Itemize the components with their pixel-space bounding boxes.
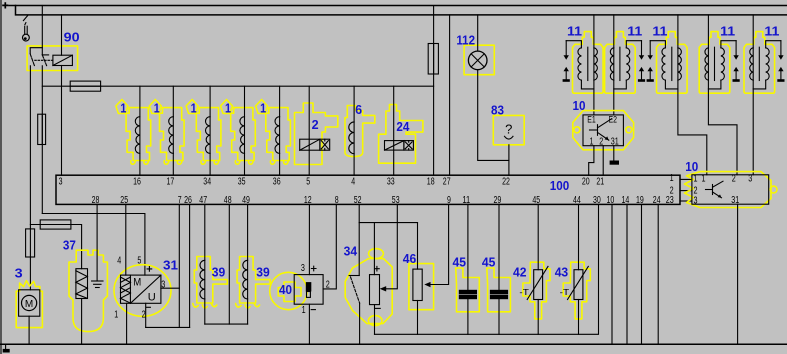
wire: supply bus through injector 1 to ECU: [139, 86, 141, 175]
svg-text:20: 20: [582, 177, 590, 188]
wire: spark plug bracket unit 2: [626, 41, 641, 48]
svg-text:11: 11: [627, 24, 642, 38]
svg-text:7: 7: [178, 195, 182, 206]
svg-text:30: 30: [593, 195, 601, 206]
sensor 39 inductive coil: [243, 260, 248, 299]
ground symbol bottom left: [5, 344, 7, 349]
relay 90 contact arm 1: [30, 54, 34, 66]
svg-text:11: 11: [652, 24, 667, 38]
svg-text:1: 1: [191, 102, 197, 116]
injector 1 (unit 2) label flag: [149, 100, 161, 114]
svg-text:1: 1: [702, 173, 706, 184]
svg-text:47: 47: [199, 195, 207, 206]
output stage 10 pin numbers 1 2 31: [590, 136, 620, 147]
fuse (horizontal) fuel pump circuit: [40, 220, 71, 229]
wire: hall sender minus to ground bus: [308, 304, 310, 344]
svg-text:1: 1: [302, 305, 306, 316]
idle stabilizer valve 6 highlight outline: [345, 106, 375, 157]
ignition coil 11 (unit 1) highlight outline: [573, 32, 604, 94]
wire: heater to ground bus: [81, 299, 83, 345]
ignition coil unit 1 primary winding: [578, 48, 581, 80]
wire: ECU pin 10 to ground bus: [611, 204, 613, 344]
svg-text:14: 14: [622, 195, 630, 206]
ignition coil unit 2 core: [619, 47, 621, 80]
svg-text:1: 1: [225, 102, 231, 116]
wire: ECU pin 28 to sensor cell: [96, 204, 98, 281]
wire: sensors 39 common link: [205, 323, 248, 325]
throttle pot 34 resistor: [370, 275, 380, 305]
output stage 10 (right) highlight outline: [685, 172, 772, 208]
wire: rail 15 to relay coil: [61, 15, 63, 55]
wire: supply bus through injector 2 to ECU: [172, 86, 174, 175]
wire: switch to ground bus: [359, 303, 361, 344]
wire: knock sensor to sensor ground: [498, 299, 500, 334]
svg-text:17: 17: [167, 177, 175, 188]
control unit 100 top pin numbers: [59, 177, 605, 188]
svg-text:36: 36: [273, 177, 281, 188]
wire: sensor ground collector line to ECU pin 30: [375, 204, 599, 334]
wire: fuse to fuel pump motor: [29, 257, 31, 290]
fuel pump 3 motor circle: [22, 295, 37, 310]
svg-text:19: 19: [636, 195, 644, 206]
hall sender 40 highlight circle: [270, 272, 307, 309]
wire: fuel pump to ground bus: [28, 316, 30, 344]
throttle switch 34 contact tick: [349, 275, 359, 277]
wire: ECU to knock sensor: [467, 204, 469, 289]
injector 3 solenoid coil: [206, 117, 211, 154]
ignition coil unit 3 bottom link: [665, 80, 678, 89]
ignition coil unit 3 primary winding: [662, 48, 665, 80]
wire: output stage (right) pin 31 to ground bus: [737, 204, 739, 344]
ignition coil unit 1 bottom link: [581, 80, 594, 89]
ear circle right: [770, 186, 777, 193]
ignition coil 11 (unit 3) highlight outline: [657, 32, 688, 94]
wire: ECU through sensor 39: [204, 204, 206, 324]
fuel pump 3 motor box: [19, 290, 40, 316]
solenoid valve 24 coil box: [385, 141, 404, 151]
svg-text:26: 26: [184, 195, 192, 206]
svg-text:6: 6: [355, 103, 362, 117]
svg-text:1: 1: [694, 173, 698, 184]
wire: sensor ground link: [146, 326, 190, 328]
ignition coil 11 (unit 4) highlight outline: [699, 32, 730, 94]
ignition coil unit 1 secondary winding: [594, 48, 597, 80]
svg-text:M: M: [25, 299, 33, 310]
wire: ECU pin 7 down: [178, 204, 180, 327]
svg-text:3: 3: [694, 196, 698, 207]
svg-text:39: 39: [212, 265, 226, 279]
injector 1 (unit 1) highlight outline: [126, 108, 151, 161]
svg-text:45: 45: [532, 195, 540, 206]
wire: spark plug bracket unit 5: [766, 41, 781, 48]
svg-text:31: 31: [731, 195, 739, 206]
svg-text:11: 11: [462, 195, 470, 206]
knock sensor 45 element bars: [490, 290, 508, 294]
knock sensor 45 element bars: [459, 290, 477, 294]
oxygen sensor 37 sensor cell bars: [92, 280, 103, 282]
output stage 10 (right) transistor symbol: [706, 181, 724, 198]
wire: spark plug bracket unit 1: [566, 41, 581, 48]
injector 2 solenoid coil: [169, 117, 174, 154]
ignition coil unit 5 core: [758, 47, 760, 80]
spark plug gap unit 1: [565, 41, 567, 56]
wire: rail 15 through lamp 112 to pin 22 node: [478, 15, 509, 161]
ignition coil unit 5 secondary winding: [750, 48, 753, 80]
svg-text:2: 2: [732, 173, 736, 184]
throttle switch 34 switch arm (dashed): [351, 277, 360, 303]
ground symbol output stage: [610, 161, 619, 165]
svg-text:35: 35: [238, 177, 246, 188]
wire: injector supply bus: [42, 85, 433, 87]
wire: sensor 42 to sensor ground: [537, 300, 539, 335]
wire: ECU through sensor 43: [578, 204, 580, 269]
wire: rail 15 through coil 3 to output stage: [678, 15, 707, 175]
svg-text:3: 3: [301, 263, 305, 274]
ignition coil unit 3 secondary winding: [678, 48, 681, 80]
injector 1 (unit 2) highlight outline: [160, 108, 185, 161]
svg-text:E1: E1: [587, 115, 596, 125]
svg-text:37: 37: [63, 238, 76, 252]
wire: ECU pin 25 to AMM pin 4: [125, 204, 127, 275]
svg-text:40: 40: [279, 283, 292, 297]
sensor 39 inductive coil: [200, 260, 205, 299]
wire: pot 46 to sensor ground: [417, 301, 419, 335]
svg-text:24: 24: [653, 195, 661, 206]
wire: spark plug bracket unit 3: [650, 41, 665, 48]
spark plug gap unit 4: [735, 41, 737, 56]
output stage 10 highlight outline: [573, 111, 634, 150]
air mass meter 31 body box: [121, 275, 161, 303]
wire: ECU through sensor 39: [247, 204, 249, 324]
ignition coil unit 4 secondary winding: [705, 48, 708, 80]
svg-text:45: 45: [453, 256, 467, 270]
output stage 10 (right) pin numbers: [694, 173, 753, 206]
svg-text:1: 1: [260, 102, 266, 116]
wire: rail 15 through coil 1 to output stage: [593, 15, 595, 115]
ground bus: [0, 343, 787, 345]
wire: relay contact 2 output down through fuse to feed line: [41, 66, 43, 214]
ignition key symbol: [23, 16, 30, 41]
injector 4 solenoid coil: [240, 117, 245, 154]
knock sensor 45 highlight outline: [456, 268, 480, 312]
solenoid valve 24 valve seat box: [404, 141, 414, 151]
temperature sensor 43 highlight outline: [563, 262, 590, 319]
svg-text:1: 1: [670, 173, 674, 184]
scan border left edge: [0, 0, 2, 354]
wire: output stage pin 31 to ground: [613, 146, 615, 161]
wire: output stage pin 2 to ECU pin 21: [602, 146, 604, 176]
svg-text:31: 31: [163, 259, 178, 273]
ignition coil unit 2 secondary winding: [610, 48, 613, 80]
wire: supply bus through valve 24 to ECU pin 33: [393, 86, 395, 175]
svg-text:112: 112: [456, 33, 475, 47]
output stage 10 (right) box: [692, 175, 769, 204]
svg-text:90: 90: [64, 31, 80, 45]
solenoid valve 24 highlight outline: [379, 105, 423, 164]
wire: knock sensor to sensor ground: [467, 299, 469, 334]
svg-text:11: 11: [720, 24, 735, 38]
svg-text:53: 53: [392, 195, 400, 206]
spark plug gap unit 3: [649, 41, 651, 56]
svg-text:43: 43: [555, 266, 569, 280]
oxygen sensor 37 highlight outline: [69, 250, 107, 331]
wire: plus rail 15 (top line 2): [16, 6, 787, 15]
wire: AMM pin 1 to ground bus: [126, 303, 128, 344]
ignition coil unit 5 bottom link: [753, 80, 766, 89]
injector 1 (unit 4) label flag: [221, 100, 233, 114]
wire: ECU through sensor 42: [537, 204, 539, 269]
ignition coil unit 4 bottom link: [708, 80, 721, 89]
throttle switch 34 highlight outline: [345, 249, 392, 326]
idle stabilizer valve 6 coil: [349, 122, 354, 154]
svg-text:39: 39: [256, 265, 270, 279]
svg-text:4: 4: [117, 255, 121, 266]
wire: sensor 43 to sensor ground: [578, 300, 580, 335]
control unit 100 box: [56, 175, 680, 204]
wire: spark plug bracket unit 4: [721, 41, 736, 48]
injector 1 (unit 1) label flag: [116, 100, 128, 114]
wire: supply to pot 34: [373, 223, 375, 275]
svg-text:23: 23: [666, 195, 674, 206]
wire: supply bus through injector 5 to ECU: [279, 86, 281, 175]
injector 1 (unit 4) highlight outline: [231, 108, 256, 161]
svg-text:1: 1: [590, 136, 594, 147]
hall sender 40 box: [294, 275, 323, 305]
hall sender 40 pin labels: [301, 263, 330, 316]
injector 5 solenoid coil: [275, 117, 280, 154]
wire: ECU pin 9 to pot 46 wiper: [431, 204, 449, 284]
ignition coil unit 3 core: [671, 47, 673, 80]
svg-text:1: 1: [120, 102, 126, 116]
wire: ECU pin 12 to hall sender plus: [308, 204, 310, 274]
injector 1 (unit 5) highlight outline: [266, 108, 291, 161]
air mass meter pin labels: [114, 255, 165, 320]
ignition coil unit 5 primary winding: [766, 48, 769, 80]
warning lamp 112 highlight box: [464, 45, 494, 74]
svg-text:27: 27: [443, 177, 451, 188]
svg-text:31: 31: [611, 136, 619, 147]
stub wires control unit to output stage: [680, 178, 692, 180]
svg-text:21: 21: [596, 177, 604, 188]
wire: rail 15 through coil 2 to output stage: [613, 15, 615, 115]
wire: feed from rail 30 to relay contact: [41, 6, 43, 55]
CO potentiometer 46 highlight box: [409, 264, 434, 310]
relay 90 highlight box: [27, 46, 78, 71]
fuse (vertical) fuel pump: [26, 229, 35, 257]
svg-text:-T: -T: [519, 287, 529, 297]
wire: rail 30 through fuse to ECU pin 18: [433, 6, 435, 176]
oxygen sensor 37 heater element: [76, 269, 88, 299]
svg-text:3: 3: [748, 173, 752, 184]
fuel pump 3 highlight outline: [16, 281, 42, 328]
svg-text:18: 18: [427, 177, 435, 188]
svg-text:24: 24: [396, 120, 409, 134]
svg-text:34: 34: [203, 177, 211, 188]
CO potentiometer 46 resistor: [413, 269, 422, 300]
svg-text:4: 4: [351, 177, 355, 188]
wire: ECU pin 52 to switch and pots supply: [358, 204, 360, 275]
wire: ECU pin 48 to sensors common: [228, 204, 230, 324]
svg-text:M: M: [133, 277, 141, 289]
warning lamp 112 bulb: [468, 51, 487, 70]
air mass meter 31 highlight outline: [114, 265, 171, 317]
svg-text:83: 83: [491, 103, 504, 117]
wire: ECU pin 53 to pot 34 wiper: [386, 204, 397, 288]
wire: AMM pin 2 down: [145, 303, 147, 327]
fuse (horizontal) injector supply: [70, 81, 100, 91]
svg-text:45: 45: [482, 256, 496, 270]
engine speed sensor 39 highlight outline: [194, 257, 227, 304]
svg-text:11: 11: [764, 24, 779, 38]
svg-text:11: 11: [567, 24, 582, 38]
svg-text:22: 22: [502, 177, 510, 188]
fuse (vertical) in relay output: [38, 114, 46, 144]
relay 90 contact bracket: [30, 48, 42, 54]
relay 90 contact arm 2: [42, 55, 46, 66]
injector 1 solenoid coil: [135, 117, 140, 154]
wire: supply bus through injector 4 to ECU: [244, 86, 246, 175]
svg-text:U: U: [148, 291, 156, 303]
hall sender 40 element: [306, 282, 312, 291]
wire: ECU to knock sensor: [498, 204, 500, 289]
svg-text:2: 2: [312, 118, 319, 132]
relay 90 coil box: [53, 55, 73, 65]
svg-text:1: 1: [154, 102, 160, 116]
temperature sensor 43 resistor: [574, 270, 583, 300]
wire: relay output feed to air mass meter pin 5: [42, 214, 145, 276]
wire: hall sender signal to ECU pin 8: [323, 204, 336, 289]
battery plus symbol: [2, 2, 8, 8]
svg-text:-T: -T: [560, 287, 570, 297]
svg-text:100: 100: [550, 179, 570, 193]
wire: supply bus through injector 3 to ECU: [209, 86, 211, 175]
solenoid valve 2 highlight outline: [295, 103, 338, 165]
svg-text:25: 25: [120, 195, 128, 206]
ignition coil unit 2 bottom link: [614, 80, 627, 89]
injector 1 (unit 5) label flag: [256, 100, 268, 114]
svg-text:52: 52: [354, 195, 362, 206]
svg-text:5: 5: [306, 177, 310, 188]
wire: output stage pin 1 to ECU pin 20: [589, 146, 594, 176]
output stage 10 box: [583, 115, 623, 146]
spark plug gap unit 2: [641, 41, 643, 56]
wire: supply to pot 46: [417, 223, 419, 270]
svg-text:16: 16: [133, 177, 141, 188]
svg-text:10: 10: [573, 99, 586, 113]
wire: ECU pin 19 to ground bus: [641, 204, 643, 344]
wire: fuse to oxygen sensor heater: [71, 225, 82, 269]
wire: ECU pin 26 down: [189, 204, 191, 327]
svg-text:10: 10: [607, 195, 615, 206]
wire: rail 15 through coil 5 to output stage: [752, 15, 754, 175]
wire: rail 15 through coil 4 to output stage: [708, 15, 737, 175]
wire: AMM pin 3 to ECU pin 7: [161, 287, 179, 289]
svg-text:3: 3: [59, 177, 63, 188]
svg-text:34: 34: [344, 244, 358, 258]
connector 83 highlight box: [493, 115, 524, 144]
hall sender 40 rotor cross: [278, 282, 301, 302]
svg-text:33: 33: [387, 177, 395, 188]
svg-text:28: 28: [92, 195, 100, 206]
control unit 100 bottom pin numbers: [92, 195, 661, 206]
air mass meter 31 hot-wire zigzag: [121, 277, 131, 303]
output stage 10 transistor symbol: [590, 119, 612, 141]
temperature sensor 42 highlight outline: [523, 262, 550, 319]
engine speed sensor 39 highlight outline: [237, 257, 270, 304]
ignition coil unit 4 core: [714, 47, 716, 80]
solenoid valve 2 coil box: [300, 139, 320, 150]
svg-text:44: 44: [573, 195, 581, 206]
svg-text:1: 1: [114, 309, 118, 320]
svg-text:10: 10: [685, 160, 698, 174]
svg-text:12: 12: [304, 195, 312, 206]
knock sensor 45 highlight outline: [487, 268, 511, 312]
svg-text:48: 48: [224, 195, 232, 206]
ignition coil 11 (unit 5) highlight outline: [744, 32, 775, 94]
fuse (vertical) pin 18: [428, 44, 438, 75]
injector 1 (unit 3) label flag: [186, 100, 198, 114]
wire: supply bus through valve 2 to ECU pin 5: [308, 86, 310, 175]
svg-text:?: ?: [505, 122, 512, 137]
ignition coil 11 (unit 2) highlight outline: [605, 32, 636, 94]
wire: relay contact 1 output down to fuse node: [29, 66, 31, 229]
wire: plus rail 30 (top line 1): [9, 5, 787, 7]
svg-text:49: 49: [242, 195, 250, 206]
temperature sensor 42 resistor: [534, 270, 543, 300]
svg-text:42: 42: [513, 266, 527, 280]
air mass meter 31 diagonal: [130, 275, 161, 303]
control unit 100 right edge pin numbers 1 2 23: [666, 173, 674, 206]
svg-text:5: 5: [137, 255, 141, 266]
wire: rail 15 to ECU pin 27: [449, 15, 451, 175]
wire: ECU pin 24 to ground bus: [657, 204, 659, 344]
svg-text:3: 3: [15, 267, 23, 281]
wire: relay coil to ECU pin 3: [61, 66, 63, 176]
relay 90 actuation dotted link: [35, 59, 53, 61]
solenoid valve 2 valve seat box: [320, 139, 330, 150]
wire: pot 34 to sensor ground: [374, 305, 376, 335]
wire: connector 83 to ECU pin 22: [508, 145, 510, 175]
svg-text:46: 46: [403, 252, 417, 266]
spark plug gap unit 5: [780, 41, 782, 56]
injector 1 (unit 3) highlight outline: [196, 108, 221, 161]
wire: supply bus through valve 6 to ECU pin 4: [353, 86, 355, 175]
ignition coil unit 1 core: [587, 47, 589, 80]
ignition coil unit 4 primary winding: [721, 48, 724, 80]
wire: ECU pin 14 to ground bus: [626, 204, 628, 344]
svg-text:29: 29: [494, 195, 502, 206]
ignition coil unit 2 primary winding: [626, 48, 629, 80]
relay 90 fixed contact tick: [42, 54, 48, 56]
